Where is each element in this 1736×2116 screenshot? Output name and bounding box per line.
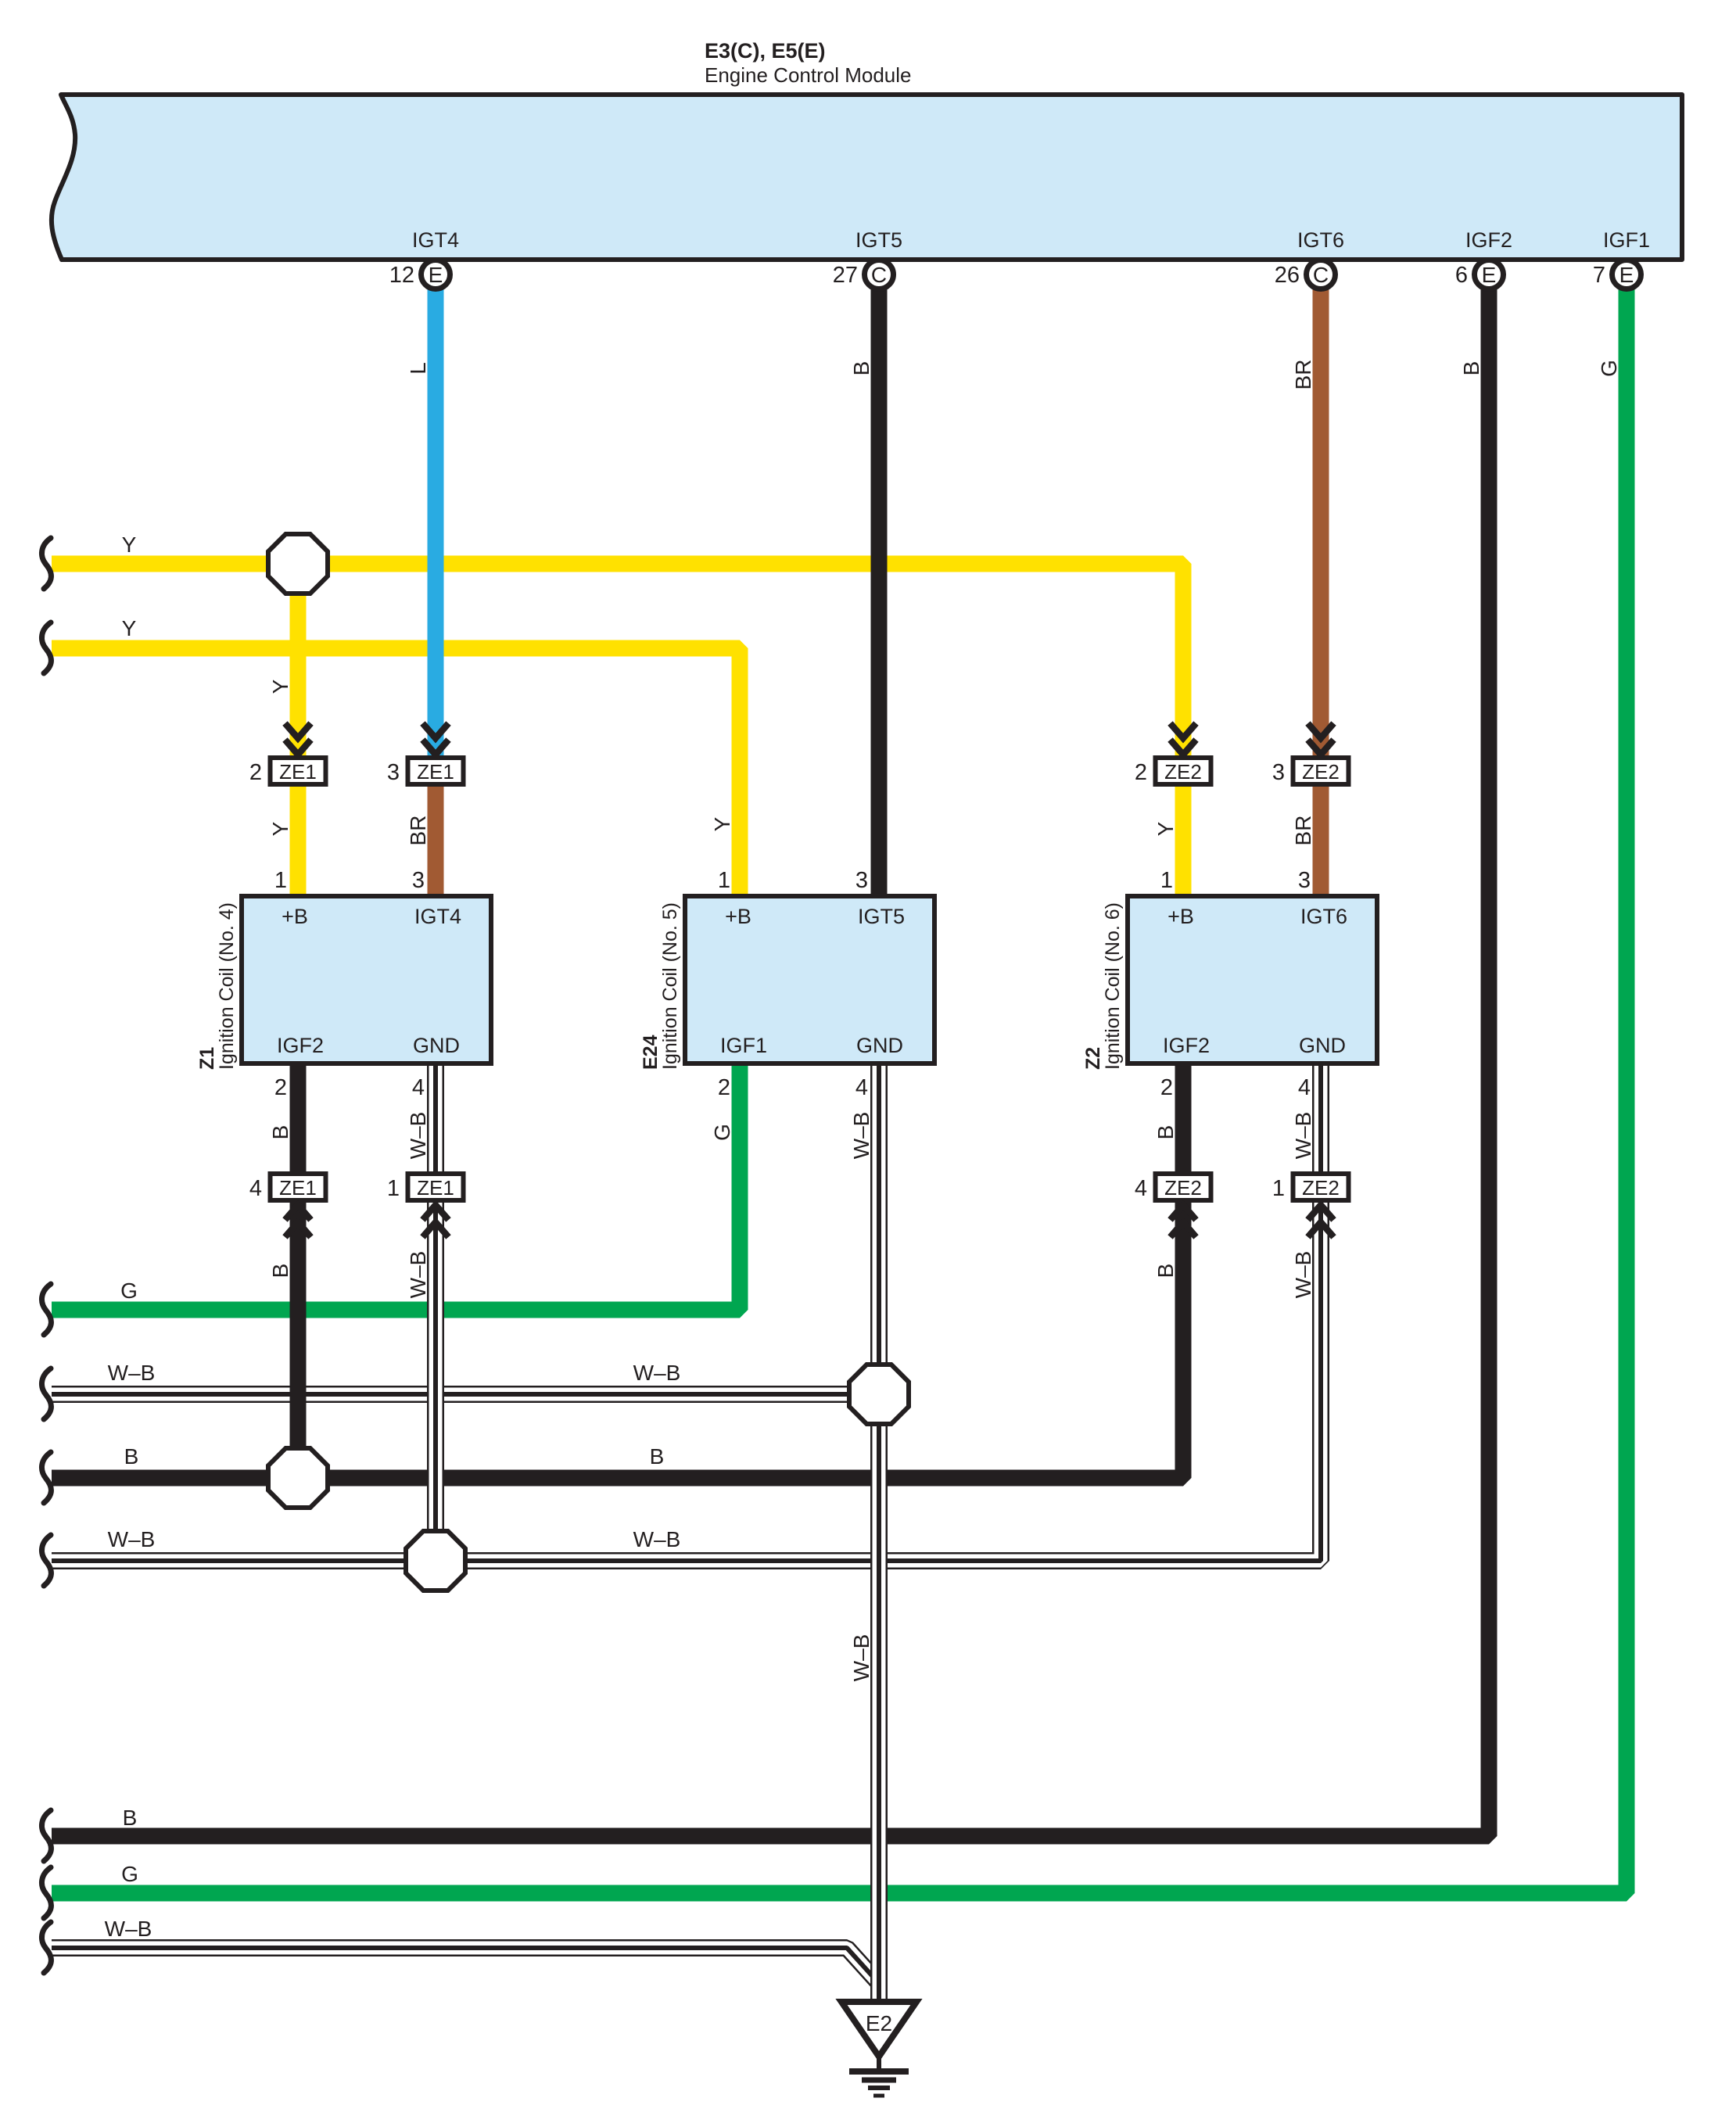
coil Z1 pin label IGT4: [414, 905, 461, 928]
svg-text:Y: Y: [122, 616, 137, 640]
connector ZE2 pin 4 shield arrow: [1171, 1205, 1196, 1237]
label G rotated at 933,1448: [710, 1124, 734, 1141]
svg-text:Y: Y: [268, 679, 292, 694]
svg-text:3: 3: [412, 868, 425, 893]
svg-text:IGT4: IGT4: [414, 905, 461, 928]
ECM pin IGF2 connector circle E: [1475, 260, 1504, 289]
svg-text:Y: Y: [1153, 821, 1178, 836]
svg-text:ZE2: ZE2: [1302, 760, 1340, 784]
coil Z1 pin label GND: [413, 1034, 460, 1057]
svg-text:B: B: [650, 1444, 665, 1469]
connector ZE2 pin 1 number: [1272, 1176, 1285, 1201]
wire L blue ECM IGT4 to ZE1 pin3: [428, 286, 444, 760]
ground E2 bar 1: [849, 2068, 909, 2075]
connector ZE1 pin 4 number: [249, 1176, 262, 1201]
coil Z2 reference Z2: [1082, 1047, 1104, 1070]
connector ZE1 pin 3 number: [387, 760, 400, 785]
svg-text:IGF2: IGF2: [277, 1034, 324, 1057]
svg-text:IGT6: IGT6: [1300, 905, 1347, 928]
label B rotated at 1891,471: [1459, 361, 1483, 376]
label W-B rotated at 1676,1630: [1291, 1251, 1315, 1299]
svg-text:Z1: Z1: [196, 1047, 218, 1070]
svg-text:E24: E24: [640, 1035, 662, 1070]
ECM pin IGF1 label: [1603, 228, 1650, 252]
label Y upper: [122, 533, 137, 557]
label B bottom: [123, 1806, 138, 1830]
wire Y yellow horizontal upper: [52, 564, 1183, 760]
coil E24 pin number 3: [855, 868, 868, 893]
svg-text:Ignition Coil (No. 4): Ignition Coil (No. 4): [216, 902, 238, 1070]
svg-text:E: E: [429, 263, 443, 287]
coil Z1 pin label IGF2: [277, 1034, 324, 1057]
svg-text:ZE1: ZE1: [417, 1176, 454, 1200]
break symbol W-B bottom wire: [41, 1922, 51, 1973]
splice junction on Y wire: [268, 534, 328, 594]
label Y rotated at 368,1060: [268, 821, 292, 836]
svg-text:Z2: Z2: [1082, 1047, 1104, 1070]
ground E2 bar 3: [868, 2086, 890, 2090]
connector ZE2 pin 3 shield arrow: [1308, 723, 1334, 755]
svg-text:IGF1: IGF1: [1603, 228, 1650, 252]
ignition coil Z2 box: [1128, 896, 1377, 1063]
coil Z2 pin label IGF2: [1163, 1034, 1210, 1057]
label G middle: [120, 1279, 138, 1303]
coil E24 pin label IGF1: [720, 1034, 767, 1057]
svg-text:3: 3: [1298, 868, 1311, 893]
svg-text:W–B: W–B: [105, 1917, 152, 1941]
connector ZE1 pin 3 shield arrow: [423, 723, 449, 755]
ECM pin IGT5 connector circle C: [865, 260, 894, 289]
label B rotated at 1111,471: [849, 361, 873, 376]
svg-text:E: E: [1619, 263, 1634, 287]
connector ZE1 pin 1 box: [408, 1174, 464, 1200]
coil E24 pin label IGT5: [858, 905, 905, 928]
svg-text:1: 1: [718, 868, 730, 893]
wire Y yellow horizontal lower: [52, 648, 740, 898]
break symbol B middle wire: [41, 1452, 51, 1503]
svg-text:B: B: [123, 1806, 138, 1830]
wire G green from E24 IGF1: [52, 1061, 740, 1310]
label B rotated at 368,1448: [268, 1125, 292, 1140]
coil Z2 pin number 1: [1160, 868, 1173, 893]
svg-text:B: B: [268, 1264, 292, 1279]
svg-text:L: L: [406, 362, 430, 375]
wire BR ZE2 pin3 to Z2 IGT6: [1313, 784, 1329, 898]
connector ZE2 pin 1 box: [1293, 1174, 1349, 1200]
ECM pin IGT6 number 26: [1275, 263, 1300, 288]
label Y rotated at 933,1054: [710, 816, 734, 831]
ECM pin IGT4 label: [412, 228, 459, 252]
svg-text:B: B: [1459, 361, 1483, 376]
splice junction on W-B first wire: [849, 1365, 909, 1424]
svg-text:G: G: [120, 1279, 138, 1303]
coil E24 pin number 4: [855, 1075, 868, 1100]
break symbol W-B second wire: [41, 1535, 51, 1586]
wire Y ZE2 pin2 to Z2 +B: [1175, 784, 1192, 898]
svg-text:Engine Control Module: Engine Control Module: [705, 63, 912, 87]
svg-text:ZE2: ZE2: [1164, 760, 1202, 784]
wire B ZE1 pin4 down to splice: [290, 1200, 307, 1478]
svg-text:IGT6: IGT6: [1297, 228, 1344, 252]
wire B black ECM IGT5 to E24 IGT5: [871, 286, 888, 898]
ground E2 triangle: [841, 2002, 916, 2057]
connector ZE1 pin 4 box: [271, 1174, 326, 1200]
svg-text:W–B: W–B: [849, 1112, 873, 1160]
svg-text:Ignition Coil (No. 5): Ignition Coil (No. 5): [659, 902, 681, 1070]
label Y rotated at 368,878: [268, 679, 292, 694]
svg-text:IGT5: IGT5: [855, 228, 902, 252]
connector ZE2 pin 2 shield arrow: [1171, 723, 1196, 755]
svg-text:W–B: W–B: [108, 1527, 156, 1551]
coil E24 reference E24: [640, 1035, 662, 1070]
svg-text:1: 1: [274, 868, 287, 893]
coil Z2 pin number 2: [1160, 1075, 1173, 1100]
label W-B rotated at 1111,2120: [849, 1634, 873, 1682]
svg-text:E3(C), E5(E): E3(C), E5(E): [705, 39, 826, 63]
svg-text:ZE2: ZE2: [1302, 1176, 1340, 1200]
svg-text:IGF1: IGF1: [720, 1034, 767, 1057]
svg-text:W–B: W–B: [406, 1251, 430, 1299]
break symbol W-B first wire: [41, 1368, 51, 1419]
svg-text:Y: Y: [268, 821, 292, 836]
connector ZE1 pin 1 shield arrow: [423, 1205, 449, 1237]
connector ZE1 pin 2 number: [249, 760, 262, 785]
svg-text:IGT5: IGT5: [858, 905, 905, 928]
wire Y ZE1 pin2 to Z1 +B: [290, 784, 307, 898]
svg-text:1: 1: [1272, 1176, 1285, 1201]
wire W-B Z1 GND to ZE1 pin1: [427, 1061, 444, 1176]
connector ZE2 pin 3 number: [1272, 760, 1285, 785]
svg-text:E: E: [1482, 263, 1497, 287]
wire W-B horizontal second: [52, 1200, 1321, 1561]
label B rotated at 1500,1625: [1153, 1264, 1178, 1279]
ECM pin IGT6 label: [1297, 228, 1344, 252]
svg-text:GND: GND: [413, 1034, 460, 1057]
coil Z2 pin label GND: [1299, 1034, 1346, 1057]
ignition coil E24 box: [685, 896, 934, 1063]
coil Z2 pin number 4: [1298, 1075, 1311, 1100]
wire G bottom to ECM IGF1: [52, 286, 1627, 1893]
label L rotated at 544,471: [406, 362, 430, 375]
svg-text:+B: +B: [282, 905, 308, 928]
ECM module E3(C), E5(E) Engine Control Module box: [52, 95, 1682, 260]
connector ZE1 pin 2 shield arrow: [285, 723, 311, 755]
svg-text:W–B: W–B: [849, 1634, 873, 1682]
coil Z1 pin number 1: [274, 868, 287, 893]
svg-text:C: C: [1313, 263, 1329, 287]
svg-text:2: 2: [1135, 760, 1147, 785]
splice junction on W-B second wire: [406, 1531, 465, 1591]
ECM pin IGT6 connector circle C: [1307, 260, 1336, 289]
svg-text:G: G: [710, 1124, 734, 1141]
svg-text:G: G: [1597, 360, 1621, 377]
connector ZE2 pin 1 shield arrow: [1308, 1205, 1334, 1237]
connector ZE1 pin 3 box: [408, 758, 464, 784]
label Y rotated at 1500,1060: [1153, 821, 1178, 836]
wire B horizontal middle: [52, 1200, 1183, 1478]
svg-text:4: 4: [1135, 1176, 1147, 1201]
label W-B second mid: [633, 1527, 681, 1551]
connector ZE2 pin 4 number: [1135, 1176, 1147, 1201]
svg-text:+B: +B: [1167, 905, 1194, 928]
svg-text:IGT4: IGT4: [412, 228, 459, 252]
break symbol G bottom wire: [41, 1867, 51, 1918]
svg-text:2: 2: [718, 1075, 730, 1100]
svg-text:4: 4: [855, 1075, 868, 1100]
svg-text:Ignition Coil (No. 6): Ignition Coil (No. 6): [1102, 902, 1124, 1070]
connector ZE1 pin 1 number: [387, 1176, 400, 1201]
svg-text:1: 1: [387, 1176, 400, 1201]
ECM pin IGF2 label: [1465, 228, 1512, 252]
svg-text:GND: GND: [856, 1034, 903, 1057]
label BR rotated at 1676,479: [1291, 360, 1315, 390]
label B middle mid: [650, 1444, 665, 1469]
svg-text:W–B: W–B: [1291, 1251, 1315, 1299]
svg-text:12: 12: [389, 263, 414, 288]
break symbol G wire: [41, 1284, 51, 1335]
coil Z1 pin number 4: [412, 1075, 425, 1100]
svg-text:Y: Y: [710, 816, 734, 831]
svg-text:ZE1: ZE1: [417, 760, 454, 784]
label W-B first mid: [633, 1361, 681, 1385]
wire W-B Z2 GND to ZE2 pin1: [1312, 1061, 1329, 1176]
coil Z2 pin label +B: [1167, 905, 1194, 928]
wire W-B horizontal first: [52, 1386, 879, 1403]
wire BR ZE1 pin3 to Z1 IGT4: [428, 784, 444, 898]
coil Z2 caption: [1102, 902, 1124, 1070]
coil E24 pin number 1: [718, 868, 730, 893]
svg-text:7: 7: [1593, 263, 1605, 288]
connector ZE2 pin 3 box: [1293, 758, 1349, 784]
svg-text:B: B: [1153, 1264, 1178, 1279]
connector ZE2 pin 2 number: [1135, 760, 1147, 785]
label W-B bottom: [105, 1917, 152, 1941]
coil Z1 pin number 3: [412, 868, 425, 893]
ECM title: [705, 39, 912, 87]
svg-text:W–B: W–B: [1291, 1112, 1315, 1160]
coil Z2 pin number 3: [1298, 868, 1311, 893]
coil E24 pin number 2: [718, 1075, 730, 1100]
wire B bottom to ECM IGF2: [52, 286, 1489, 1836]
label W-B second left: [108, 1527, 156, 1551]
label G rotated at 2067,471: [1597, 360, 1621, 377]
svg-text:B: B: [1153, 1125, 1178, 1140]
svg-text:6: 6: [1455, 263, 1468, 288]
connector ZE2 pin 4 box: [1156, 1174, 1211, 1200]
svg-text:BR: BR: [1291, 360, 1315, 390]
wire W-B E24 GND down to ground E2: [870, 1061, 888, 2002]
ground E2 bar 4: [873, 2094, 884, 2098]
svg-text:3: 3: [387, 760, 400, 785]
svg-text:GND: GND: [1299, 1034, 1346, 1057]
break symbol B bottom wire: [41, 1810, 51, 1861]
svg-text:3: 3: [855, 868, 868, 893]
coil Z1 caption: [216, 902, 238, 1070]
splice junction on B wire: [268, 1448, 328, 1508]
svg-text:2: 2: [249, 760, 262, 785]
svg-text:W–B: W–B: [633, 1361, 681, 1385]
svg-text:2: 2: [274, 1075, 287, 1100]
label W-B rotated at 1111,1452: [849, 1112, 873, 1160]
label B middle left: [124, 1444, 139, 1469]
wire W-B ZE1 pin1 down to splice: [427, 1200, 444, 1561]
break symbol Y lower wire: [41, 622, 51, 673]
label BR rotated at 544,1062: [406, 816, 430, 846]
svg-text:W–B: W–B: [406, 1112, 430, 1160]
svg-text:G: G: [121, 1862, 138, 1886]
label W-B first left: [108, 1361, 156, 1385]
svg-text:Y: Y: [122, 533, 137, 557]
ground E2 stub: [877, 2057, 881, 2070]
svg-text:IGF2: IGF2: [1163, 1034, 1210, 1057]
break symbol Y upper wire: [41, 538, 51, 589]
coil E24 pin label +B: [725, 905, 751, 928]
coil E24 caption: [659, 902, 681, 1070]
coil Z1 pin number 2: [274, 1075, 287, 1100]
label Y lower: [122, 616, 137, 640]
label W-B rotated at 544,1630: [406, 1251, 430, 1299]
connector ZE2 pin 2 box: [1156, 758, 1211, 784]
svg-text:2: 2: [1160, 1075, 1173, 1100]
ECM pin IGT4 number 12: [389, 263, 414, 288]
wire Y yellow splice to ZE1 pin2: [290, 564, 307, 760]
svg-text:26: 26: [1275, 263, 1300, 288]
svg-text:B: B: [268, 1125, 292, 1140]
ignition coil Z1 box: [242, 896, 491, 1063]
svg-text:1: 1: [1160, 868, 1173, 893]
svg-text:W–B: W–B: [108, 1361, 156, 1385]
svg-text:4: 4: [249, 1176, 262, 1201]
svg-text:BR: BR: [1291, 816, 1315, 846]
svg-text:ZE1: ZE1: [279, 1176, 317, 1200]
svg-text:4: 4: [412, 1075, 425, 1100]
svg-text:B: B: [849, 361, 873, 376]
label W-B rotated at 1676,1452: [1291, 1112, 1315, 1160]
svg-text:3: 3: [1272, 760, 1285, 785]
coil Z1 pin label +B: [282, 905, 308, 928]
connector ZE1 pin 4 shield arrow: [285, 1205, 311, 1237]
wire W-B bottom: [52, 1948, 877, 1981]
label BR rotated at 1676,1062: [1291, 816, 1315, 846]
ground E2 bar 2: [862, 2078, 896, 2083]
ECM pin IGT5 label: [855, 228, 902, 252]
coil E24 pin label GND: [856, 1034, 903, 1057]
connector ZE1 pin 2 box: [271, 758, 326, 784]
svg-text:+B: +B: [725, 905, 751, 928]
svg-text:C: C: [871, 263, 887, 287]
ECM pin IGF1 number 7: [1593, 263, 1605, 288]
label B rotated at 368,1625: [268, 1264, 292, 1279]
svg-text:IGF2: IGF2: [1465, 228, 1512, 252]
svg-text:4: 4: [1298, 1075, 1311, 1100]
svg-text:B: B: [124, 1444, 139, 1469]
coil Z1 reference Z1: [196, 1047, 218, 1070]
label G bottom: [121, 1862, 138, 1886]
svg-text:W–B: W–B: [633, 1527, 681, 1551]
wire B Z2 IGF2 to ZE2 pin4: [1175, 1061, 1192, 1176]
wire BR brown ECM IGT6 to ZE2 pin3: [1313, 286, 1329, 760]
svg-text:ZE1: ZE1: [279, 760, 317, 784]
label W-B rotated at 544,1452: [406, 1112, 430, 1160]
ECM pin IGT5 number 27: [833, 263, 858, 288]
ECM pin IGF1 connector circle E: [1612, 260, 1641, 289]
svg-text:E2: E2: [866, 2011, 892, 2035]
label B rotated at 1500,1448: [1153, 1125, 1178, 1140]
svg-text:ZE2: ZE2: [1164, 1176, 1202, 1200]
ECM pin IGT4 connector circle E: [421, 260, 450, 289]
ECM pin IGF2 number 6: [1455, 263, 1468, 288]
wire B Z1 IGF2 to ZE1 pin4: [290, 1061, 307, 1176]
svg-text:BR: BR: [406, 816, 430, 846]
coil Z2 pin label IGT6: [1300, 905, 1347, 928]
svg-text:27: 27: [833, 263, 858, 288]
